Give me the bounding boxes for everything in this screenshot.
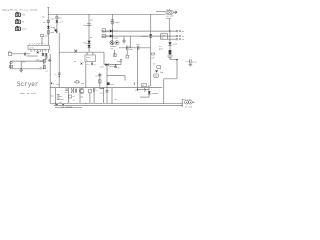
- resistor R13: [105, 65, 125, 104]
- svg-text:the io Pal: the io Pal: [20, 92, 38, 95]
- junction X3: [81, 63, 83, 65]
- svg-text:4N: 4N: [102, 30, 104, 32]
- ground G1: [167, 56, 172, 59]
- wire left vertical bus: [47, 8, 49, 46]
- wire header line 1: [102, 30, 176, 32]
- arrow out: [48, 59, 51, 62]
- resistor R11: [39, 59, 45, 68]
- wire stub: [140, 96, 149, 98]
- wire mains drop: [168, 19, 170, 31]
- svg-text:0u47: 0u47: [192, 60, 198, 63]
- label pins: [29, 42, 45, 45]
- resistor R12: [39, 66, 45, 69]
- resistor R19: [99, 80, 101, 83]
- crystal Y1: [85, 52, 95, 61]
- pin P2: [176, 35, 185, 38]
- ground G4: [19, 69, 23, 73]
- svg-text:B+: B+: [10, 66, 12, 68]
- ground G3: [42, 61, 45, 63]
- transistor Q3: [42, 53, 45, 56]
- resistor R5: [102, 29, 119, 33]
- resistor R16: [89, 89, 92, 92]
- mains entry module X1: [166, 8, 177, 20]
- svg-text:Scryer: Scryer: [17, 81, 39, 88]
- wire bottom rail: [50, 87, 162, 89]
- label misc rows: [72, 95, 75, 101]
- connector body edge: [181, 99, 183, 107]
- resistor R8: [41, 34, 49, 45]
- svg-text:1k: 1k: [142, 85, 144, 87]
- label reg: [159, 45, 163, 50]
- diode D10: [56, 104, 64, 106]
- connector J1: [15, 12, 20, 16]
- battery sub-circuit top wire: [10, 60, 44, 62]
- bottom-left cluster: cap C6: [51, 88, 64, 105]
- resistor R7: [169, 45, 172, 54]
- svg-text:MODULATED_PSU rev 2.1c tested: MODULATED_PSU rev 2.1c tested: [2, 9, 38, 12]
- svg-text:0v com: 0v com: [185, 105, 193, 108]
- wire bus line 1: [50, 102, 183, 104]
- bottom box line: [55, 107, 82, 109]
- connector J3: [15, 26, 20, 30]
- pin P3: [176, 38, 185, 41]
- ground G5: [189, 63, 193, 66]
- svg-text:+(: +(: [54, 73, 56, 76]
- output connector J4: [182, 98, 194, 108]
- wire header line 3: [168, 38, 177, 40]
- wire branch A vertical: [56, 14, 58, 33]
- wire xtal leg: [85, 62, 87, 88]
- svg-text:1 2 3 4 5 6 7: 1 2 3 4 5 6 7: [29, 42, 45, 45]
- battery sub-circuit bottom wire: [10, 68, 44, 70]
- capacitor C11: [95, 74, 101, 77]
- ground G2: [44, 56, 48, 60]
- wire left low vertical: [49, 54, 51, 104]
- label xtal caps: [85, 62, 97, 65]
- wire bus line 2: [54, 104, 183, 106]
- capacitor C7: [65, 88, 68, 94]
- wire top rail: [48, 13, 165, 15]
- svg-text:1N4007: 1N4007: [151, 92, 159, 95]
- transistor Q2: [115, 41, 119, 45]
- svg-text:DCin: DCin: [22, 28, 28, 31]
- resistor R9: [36, 58, 40, 61]
- capacitor C5: [114, 64, 120, 69]
- wire header line 2: [102, 35, 176, 37]
- resistor R3: [56, 16, 63, 19]
- svg-text:15v: 15v: [154, 75, 157, 77]
- junction X2: [37, 52, 39, 54]
- MCU U1: [28, 45, 50, 50]
- regulator U2: [161, 34, 168, 40]
- wire mid horizontal: [59, 51, 104, 53]
- capacitor C4: [136, 43, 140, 50]
- resistor R18: [74, 81, 85, 85]
- resistor R2: [47, 31, 55, 34]
- wire center link: [119, 47, 151, 49]
- wire second rail stub: [156, 11, 165, 13]
- svg-text:100n: 100n: [117, 60, 123, 63]
- resistor R4: [53, 27, 58, 33]
- wire reg drop: [169, 31, 171, 42]
- svg-text:4148: 4148: [172, 43, 178, 46]
- svg-text:4148: 4148: [113, 36, 119, 39]
- wire branch B vertical: [58, 33, 60, 88]
- capacitor C10: [54, 73, 61, 77]
- diode D5: [168, 42, 177, 45]
- svg-text:4N: 4N: [102, 36, 104, 38]
- pin stubs U1: [31, 49, 49, 52]
- wire aux vertical: [99, 73, 101, 88]
- capacitor C12: [123, 36, 126, 44]
- wire cap top branch: [117, 60, 123, 65]
- svg-text:out 12v: out 12v: [182, 98, 191, 101]
- wire right jog: [164, 59, 178, 103]
- resistor R23: [134, 82, 139, 92]
- wire cluster legs: [68, 88, 94, 104]
- misc blobs: [151, 53, 155, 60]
- resistor R15: [142, 84, 152, 88]
- node row above bus: [51, 83, 60, 86]
- resistor R22: [69, 95, 72, 98]
- coupler K1: [71, 88, 76, 93]
- zener D1: [47, 26, 55, 29]
- capacitor C8: [93, 88, 98, 92]
- zener D3: [83, 36, 92, 48]
- diode D6: [45, 53, 48, 55]
- wire row link: [137, 89, 149, 90]
- wire feedback vertical: [137, 48, 139, 90]
- node dot: [169, 30, 170, 31]
- capacitor C9: [185, 59, 197, 63]
- capacitor C1: [83, 19, 94, 27]
- wire zener branch: [88, 14, 90, 52]
- resistor R20: [114, 50, 117, 57]
- transistor Q1: [110, 41, 114, 45]
- test point TP1: [8, 50, 38, 56]
- diode D7: [100, 63, 121, 68]
- capacitor C2: [111, 14, 121, 45]
- connector J2: [15, 19, 20, 23]
- net label box: [154, 74, 158, 77]
- sense resistor R17: [153, 62, 164, 73]
- transistor Q4: [79, 89, 84, 99]
- pin P1: [176, 30, 185, 33]
- resistor R21: [126, 50, 129, 58]
- battery B1: [9, 61, 12, 69]
- label Q: [111, 45, 118, 50]
- inductor L1: [99, 88, 104, 104]
- svg-text:4148: 4148: [113, 30, 119, 33]
- resistor R1: [43, 17, 55, 24]
- junction dots on bus: [55, 103, 164, 104]
- wire mid low vertical: [111, 88, 113, 104]
- capacitor C3: [127, 45, 134, 51]
- svg-text:4x 1N5819: 4x 1N5819: [61, 106, 73, 109]
- svg-text:100n: 100n: [115, 21, 121, 24]
- diode D9: [144, 86, 159, 97]
- wire right mid drop: [103, 52, 105, 64]
- wire drop from line2: [129, 36, 131, 48]
- resistor R6: [102, 34, 119, 39]
- junction X: [74, 50, 77, 53]
- diode D2: [56, 20, 64, 23]
- diode D4: [141, 14, 152, 86]
- resistor R10: [21, 60, 27, 69]
